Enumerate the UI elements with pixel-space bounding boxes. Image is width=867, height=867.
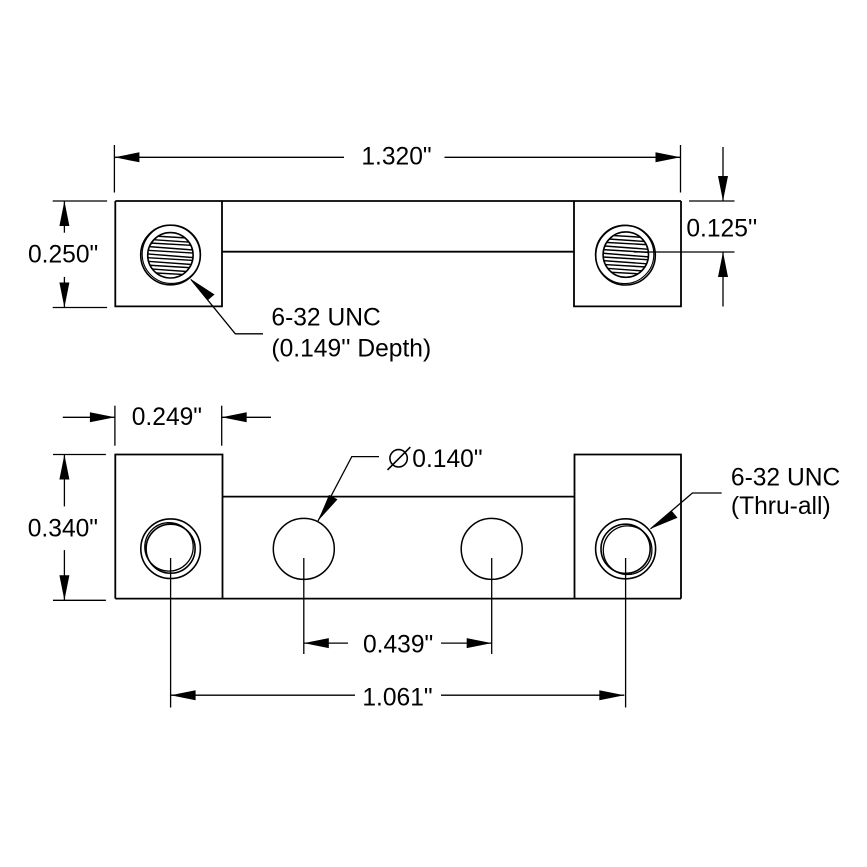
svg-text:6-32 UNC: 6-32 UNC bbox=[271, 304, 380, 331]
svg-text:(0.149'' Depth): (0.149'' Depth) bbox=[271, 336, 431, 363]
leader 6-32 UNC (top) bbox=[190, 279, 263, 334]
dimension 0.439" arrows bbox=[304, 638, 492, 648]
diameter symbol bbox=[388, 447, 411, 470]
dimension 0.340" extension lines bbox=[53, 455, 106, 601]
middle hole 1 bbox=[273, 518, 334, 579]
dimension 1.320" extension lines bbox=[114, 145, 680, 193]
svg-text:1.320": 1.320" bbox=[361, 144, 431, 171]
bar bottom edge bbox=[222, 251, 574, 253]
left hole thread hatch bbox=[146, 236, 196, 276]
leader diameter 0.140" bbox=[318, 457, 379, 521]
left block (bottom view) bbox=[115, 455, 222, 599]
svg-text:1.061": 1.061" bbox=[362, 685, 432, 712]
part top edge bbox=[115, 200, 681, 202]
dimension 0.249" arrows bbox=[63, 412, 271, 422]
right block (bottom view) bbox=[575, 455, 682, 599]
dimension 0.340" arrows bbox=[59, 455, 69, 601]
bar top edge (bottom view) bbox=[223, 496, 575, 498]
leader 6-32 UNC (bottom) bbox=[651, 493, 722, 529]
svg-text:0.439": 0.439" bbox=[363, 632, 433, 659]
svg-text:0.125'': 0.125'' bbox=[686, 215, 757, 242]
hole centre lines bbox=[171, 558, 626, 708]
dimension 0.250" line with arrows bbox=[59, 201, 69, 308]
part bottom edge bbox=[115, 598, 681, 600]
left tapped hole (bottom view) bbox=[141, 519, 201, 579]
svg-text:(Thru-all): (Thru-all) bbox=[731, 493, 831, 520]
svg-text:0.249": 0.249" bbox=[132, 404, 202, 431]
left threaded hole (top view) bbox=[141, 225, 201, 285]
svg-text:6-32 UNC: 6-32 UNC bbox=[731, 464, 840, 491]
dimension 0.125'' extension lines bbox=[634, 201, 735, 252]
right threaded hole (top view) bbox=[595, 225, 655, 285]
middle hole 2 bbox=[461, 518, 522, 579]
right block bbox=[574, 201, 681, 306]
dimension 0.250" extension lines bbox=[53, 201, 107, 308]
svg-text:0.140": 0.140" bbox=[412, 446, 482, 473]
right tapped hole (bottom view) bbox=[596, 519, 656, 579]
svg-text:0.340": 0.340" bbox=[28, 515, 98, 542]
svg-text:0.250": 0.250" bbox=[28, 242, 98, 269]
dimension 0.125'' arrows bbox=[718, 147, 728, 307]
dimension 0.249" extension lines bbox=[115, 406, 222, 446]
right hole thread hatch bbox=[601, 235, 651, 275]
dimension 1.320" line with arrows bbox=[114, 152, 680, 162]
dimension 1.061" arrows bbox=[171, 690, 625, 700]
left block bbox=[115, 201, 222, 306]
